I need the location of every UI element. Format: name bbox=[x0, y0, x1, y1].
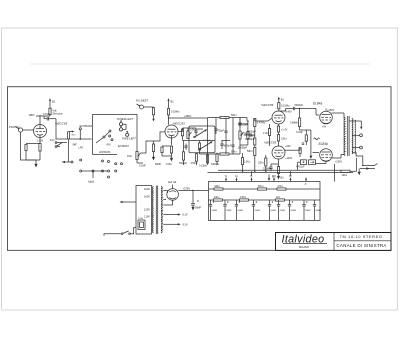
svg-text:50Ko: 50Ko bbox=[231, 114, 237, 117]
svg-text:0.47Mo: 0.47Mo bbox=[257, 122, 266, 125]
svg-text:50Ko: 50Ko bbox=[231, 151, 237, 154]
svg-text:0.22Mo: 0.22Mo bbox=[199, 165, 208, 168]
feedback resistor R20 10Ko bbox=[341, 158, 357, 177]
wire jack ground drop bbox=[21, 132, 37, 160]
tuner-left jacks bbox=[117, 117, 134, 131]
primary winding bbox=[344, 118, 345, 156]
node 185V bbox=[29, 113, 45, 124]
svg-text:0.68Mo: 0.68Mo bbox=[290, 122, 299, 125]
triode V1 1/2ECC83 bbox=[34, 122, 68, 144]
svg-text:LFO: LFO bbox=[79, 146, 84, 149]
resistor R28 bbox=[211, 153, 220, 166]
svg-text:B1: B1 bbox=[281, 98, 285, 102]
cap C11 10000pF bbox=[244, 132, 257, 137]
node ENTRATA bbox=[79, 124, 92, 140]
cap C12 10000pF bbox=[245, 135, 256, 148]
selector box S1 bbox=[93, 115, 138, 155]
resistor R27 bbox=[198, 141, 207, 155]
svg-text:10Ko: 10Ko bbox=[214, 197, 220, 199]
vertical rail to filter bbox=[199, 118, 209, 168]
svg-text:0.1MF: 0.1MF bbox=[139, 165, 146, 168]
p.u. dest jack J2 bbox=[136, 99, 154, 109]
svg-text:3000pF: 3000pF bbox=[224, 146, 232, 148]
svg-text:ENTRATA: ENTRATA bbox=[80, 124, 93, 128]
terminal X bbox=[304, 177, 308, 186]
connecting rail to driver bbox=[247, 118, 249, 122]
series cap on input wire bbox=[68, 131, 76, 140]
cap C9 750pF bbox=[214, 118, 224, 135]
coupling cap C1 0.1MF bbox=[43, 113, 56, 121]
filter box outline bbox=[209, 182, 321, 221]
net label 5KF LFO bbox=[73, 144, 84, 150]
cathode resistor R19 470o bbox=[298, 160, 327, 171]
coupling to EL84b: wires and caps bbox=[285, 130, 311, 150]
svg-text:50MF: 50MF bbox=[212, 210, 218, 212]
plate resistor R1 bbox=[44, 108, 63, 116]
B+ output wire +275V bbox=[178, 187, 208, 191]
svg-text:470Ko: 470Ko bbox=[191, 162, 199, 165]
wire volume wiper to V2 grid bbox=[141, 132, 166, 153]
electrolytic C14 220MF bbox=[263, 164, 279, 171]
svg-text:1.2Ko: 1.2Ko bbox=[244, 161, 251, 164]
svg-text:25MF: 25MF bbox=[280, 210, 286, 212]
svg-text:12Ko: 12Ko bbox=[281, 138, 287, 141]
svg-text:0.18Mo: 0.18Mo bbox=[171, 111, 180, 114]
wire R13 to rail bbox=[254, 162, 256, 171]
svg-text:ENTRATA: ENTRATA bbox=[100, 151, 111, 154]
core bbox=[348, 116, 349, 156]
svg-text:185V: 185V bbox=[29, 113, 35, 117]
filter cap bank bbox=[209, 200, 322, 221]
svg-text:56Ko: 56Ko bbox=[247, 150, 253, 153]
svg-text:+9V: +9V bbox=[322, 126, 327, 129]
svg-text:B1: B1 bbox=[281, 176, 285, 180]
svg-text:2.2Ko: 2.2Ko bbox=[263, 132, 270, 135]
tone switch box bbox=[189, 126, 215, 153]
treble pot P3 0.5Mo bbox=[239, 127, 249, 154]
cap C8 250pF bbox=[238, 118, 248, 129]
cap C10 3000pF bbox=[220, 140, 231, 149]
riser to terminal 34 bbox=[290, 171, 292, 176]
svg-text:25MF: 25MF bbox=[255, 210, 261, 212]
svg-text:+54V: +54V bbox=[285, 145, 291, 148]
triode V4 1/2ECC83 (phase splitter) bbox=[264, 140, 293, 160]
B+ centre tap arrow bbox=[349, 121, 362, 130]
svg-text:25MF: 25MF bbox=[226, 210, 232, 212]
cathode bypass capacitor C2 bbox=[25, 144, 40, 161]
svg-text:X: X bbox=[304, 182, 307, 186]
riser to terminal 7s b bbox=[251, 171, 253, 176]
svg-text:A(p)1: A(p)1 bbox=[87, 180, 95, 184]
cathodyne resistor R32 bbox=[277, 132, 287, 146]
grid return rail bbox=[183, 140, 216, 142]
primary lead top bbox=[344, 117, 345, 119]
cap C16 bbox=[222, 118, 230, 155]
coupling cap C5 bbox=[181, 128, 183, 141]
svg-text:+140V: +140V bbox=[285, 111, 293, 114]
resistor R14 1.2Ko bbox=[241, 153, 250, 168]
cathode resistor R6 bbox=[170, 146, 173, 162]
speaker tap terminal 1 bbox=[352, 134, 362, 137]
load resistor R3 bbox=[152, 107, 154, 122]
B+ arrow B1 (driver) bbox=[278, 97, 285, 103]
svg-text:FUS: FUS bbox=[139, 218, 144, 220]
svg-text:P.U.DEST: P.U.DEST bbox=[136, 99, 148, 103]
svg-text:1Ko: 1Ko bbox=[276, 197, 281, 199]
T1 secondary winding bbox=[161, 187, 162, 233]
svg-text:5KF: 5KF bbox=[73, 144, 78, 147]
svg-text:+275V: +275V bbox=[183, 187, 191, 191]
svg-text:+250V: +250V bbox=[335, 160, 342, 163]
svg-text:50MF: 50MF bbox=[195, 207, 202, 210]
resistor R21 52Ko bbox=[214, 186, 223, 190]
junction dots on rail bbox=[242, 171, 267, 172]
svg-text:B1: B1 bbox=[171, 100, 175, 104]
grid resistor R4 bbox=[152, 141, 155, 161]
ground (input stage) bbox=[26, 160, 40, 168]
wafer contact grid below selector bbox=[71, 159, 123, 184]
resistor R13 56Ko bbox=[247, 148, 256, 163]
mains voltage arrow bbox=[120, 201, 137, 203]
svg-text:ENTRATA: ENTRATA bbox=[118, 145, 129, 148]
rectifier U3 GZ34 bbox=[163, 180, 178, 205]
svg-text:MILANO: MILANO bbox=[299, 245, 309, 249]
mute switch S3 bbox=[50, 140, 67, 147]
svg-text:470ΩLF: 470ΩLF bbox=[296, 166, 305, 169]
svg-text:TUNER-LEFT: TUNER-LEFT bbox=[117, 117, 134, 121]
logo Italvideo bbox=[282, 233, 327, 249]
svg-text:½ECC83: ½ECC83 bbox=[264, 140, 277, 144]
svg-text:51Ko: 51Ko bbox=[258, 186, 264, 188]
secondary bottom lead bbox=[352, 153, 363, 166]
svg-text:3300pF: 3300pF bbox=[179, 162, 188, 165]
resistor R24 10Ko bbox=[213, 197, 222, 201]
svg-text:Silencium: Silencium bbox=[53, 113, 63, 116]
svg-text:50MF: 50MF bbox=[316, 210, 322, 212]
T1 primary taps bbox=[152, 192, 154, 224]
tape-left jack bbox=[122, 131, 136, 140]
svg-text:TM 10-10 STEREO: TM 10-10 STEREO bbox=[340, 234, 383, 239]
hum filter squiggle bbox=[314, 138, 320, 140]
svg-text:+280V: +280V bbox=[184, 115, 192, 118]
primary lead bottom bbox=[344, 154, 345, 157]
bus wire row2 bbox=[209, 199, 321, 201]
svg-text:RIV.: RIV. bbox=[107, 144, 112, 147]
svg-text:50MF: 50MF bbox=[155, 163, 162, 166]
heater winding line 6.3V (a) bbox=[163, 213, 188, 216]
svg-text:125V: 125V bbox=[144, 208, 150, 212]
svg-text:110V: 110V bbox=[144, 215, 150, 219]
svg-text:Rim: Rim bbox=[72, 134, 76, 136]
triode V2 1/2ECC83 bbox=[165, 121, 185, 145]
B+ arrow B1 (input stage) bbox=[49, 98, 56, 108]
arrow to wafer bbox=[62, 161, 71, 163]
svg-text:1.5Ko: 1.5Ko bbox=[166, 163, 173, 166]
heater rail lower bbox=[208, 171, 354, 173]
svg-text:20000pF: 20000pF bbox=[238, 147, 248, 149]
wire plate node to selector bbox=[56, 119, 92, 139]
feedback rail wire bbox=[218, 169, 341, 171]
pentode U2 EL84b bbox=[319, 142, 345, 163]
heater winding line 6.3V (b) bbox=[163, 223, 188, 226]
svg-text:25MF: 25MF bbox=[305, 210, 311, 212]
svg-text:EL84a: EL84a bbox=[313, 102, 322, 106]
svg-text:47Ko: 47Ko bbox=[278, 186, 284, 188]
plate resistor R5 0.18Mo bbox=[167, 109, 180, 125]
svg-text:220V: 220V bbox=[144, 187, 150, 191]
resistor R8 bbox=[191, 153, 199, 165]
first filter cap C15 50MF bbox=[191, 190, 202, 211]
cap C18 25MF bbox=[238, 118, 249, 127]
resistor R17 22Ko bbox=[258, 155, 267, 171]
plate resistor R11 0.15Mo bbox=[278, 103, 290, 112]
wire to EL84b grid bbox=[313, 152, 320, 154]
bass pot P2 0.5Mo bbox=[183, 128, 198, 139]
wire jack to V1 grid bbox=[23, 129, 34, 131]
mains switch S2 bbox=[104, 228, 136, 236]
speaker tap terminal 2 bbox=[352, 146, 362, 149]
bus wire row1 bbox=[209, 188, 321, 190]
resistor R7 100Ko bbox=[179, 141, 188, 166]
svg-text:3.3Ko: 3.3Ko bbox=[240, 197, 247, 199]
screen feed drop wire bbox=[310, 130, 313, 159]
svg-text:EL84b: EL84b bbox=[319, 142, 328, 146]
svg-text:5000pF: 5000pF bbox=[295, 104, 304, 107]
phono input jack J1 bbox=[9, 125, 23, 132]
svg-text:1Mo: 1Mo bbox=[127, 155, 132, 158]
svg-text:5mV: 5mV bbox=[50, 140, 55, 142]
svg-text:50MF: 50MF bbox=[291, 210, 297, 212]
primary winding inner hatch bbox=[344, 119, 346, 153]
svg-text:10000pF: 10000pF bbox=[245, 138, 255, 141]
svg-text:6.3V: 6.3V bbox=[183, 214, 188, 217]
svg-text:22Ko: 22Ko bbox=[258, 162, 264, 165]
T1 core bbox=[156, 186, 157, 235]
schematic border frame bbox=[8, 87, 392, 251]
svg-text:52Ko: 52Ko bbox=[215, 186, 221, 188]
cap C17 bbox=[231, 118, 234, 155]
resistor R29 1Mo bbox=[238, 121, 255, 149]
svg-text:½ECC83: ½ECC83 bbox=[173, 121, 186, 125]
switch S1 contacts bbox=[96, 130, 129, 154]
svg-text:+1.4V: +1.4V bbox=[281, 129, 288, 132]
grid leak resistor R15 0.68Mo bbox=[290, 108, 301, 130]
svg-text:50MF: 50MF bbox=[271, 210, 277, 212]
T1 secondary hatch bbox=[161, 188, 163, 231]
svg-text:0.15Mo: 0.15Mo bbox=[281, 105, 290, 108]
svg-text:TAPE LEFT: TAPE LEFT bbox=[122, 137, 136, 141]
terminal 14 bbox=[235, 176, 238, 182]
svg-text:CANALE DI SINISTRA: CANALE DI SINISTRA bbox=[336, 243, 386, 248]
volume pot P1 1Mo bbox=[127, 151, 146, 168]
output jack bbox=[360, 164, 378, 170]
terminal 7s bbox=[225, 176, 228, 182]
plate to output coupling: cap C13 5000pF bbox=[279, 104, 320, 115]
svg-text:½ECC83: ½ECC83 bbox=[261, 103, 274, 107]
cap C6 10000pF bbox=[194, 128, 203, 136]
wire V2 plate to tone rail bbox=[178, 131, 183, 133]
svg-text:3300pF: 3300pF bbox=[211, 163, 220, 166]
svg-text:0.1MF: 0.1MF bbox=[43, 113, 50, 116]
node +280V plate rail bbox=[168, 115, 208, 119]
terminal 34 bbox=[289, 176, 292, 182]
wire entrata node drop bbox=[68, 139, 70, 162]
svg-text:50MF: 50MF bbox=[238, 210, 244, 212]
cathode resistor R18 12Ko bbox=[277, 159, 279, 176]
B.T. feed arrow bbox=[268, 175, 277, 182]
bottom ladder resistor R10 50Ko bbox=[208, 151, 241, 156]
resistor R22 51Ko bbox=[258, 186, 267, 190]
svg-text:½ECC83: ½ECC83 bbox=[55, 122, 68, 126]
wire R14 to rail bbox=[242, 168, 244, 171]
svg-text:+250V: +250V bbox=[327, 109, 335, 112]
resistor R26 1Ko bbox=[276, 197, 285, 201]
svg-text:0.1MF: 0.1MF bbox=[296, 131, 303, 134]
ground (splitter) bbox=[277, 176, 284, 180]
triode V3 1/2ECC83 bbox=[261, 103, 292, 124]
tail resistor R16 bbox=[263, 124, 271, 146]
terminal 7s c bbox=[273, 176, 276, 182]
svg-text:10000: 10000 bbox=[197, 129, 204, 131]
treble ladder top resistor R9 50Ko bbox=[208, 114, 248, 119]
grid resistor R30 EL84b bbox=[299, 143, 304, 157]
T1 primary winding bbox=[153, 187, 154, 233]
B+ arrow B1 (second stage) bbox=[167, 98, 174, 108]
secondary winding section 2 bbox=[355, 120, 356, 154]
svg-text:10000pF: 10000pF bbox=[247, 132, 257, 134]
title block box bbox=[276, 233, 392, 251]
secondary winding bbox=[352, 119, 353, 154]
ground (output) bbox=[358, 169, 361, 176]
svg-text:6.3V: 6.3V bbox=[183, 224, 188, 227]
svg-text:+143V: +143V bbox=[285, 157, 293, 160]
svg-text:160V: 160V bbox=[144, 195, 150, 199]
cap C7 bbox=[184, 144, 187, 151]
cathode bypass cap C4 bbox=[155, 146, 172, 166]
svg-text:B1: B1 bbox=[52, 100, 56, 104]
pentode U1 EL84a bbox=[313, 102, 344, 124]
grid resistor R12 0.47Mo bbox=[254, 118, 273, 135]
terminal 7s b bbox=[250, 176, 253, 182]
faint scan streak bbox=[30, 63, 370, 65]
svg-text:750pF: 750pF bbox=[218, 131, 225, 133]
svg-text:GZ 34: GZ 34 bbox=[168, 180, 177, 184]
svg-text:1.72V: 1.72V bbox=[37, 139, 44, 143]
capacitor polarity marks bbox=[197, 200, 307, 203]
resistor R23 47Ko bbox=[277, 186, 286, 190]
mains fuse F1 bbox=[138, 218, 145, 229]
screen return drop bbox=[334, 164, 336, 182]
cathode resistor R2 bbox=[37, 139, 44, 161]
svg-text:10Ko: 10Ko bbox=[342, 174, 348, 177]
cathodyne resistor R31 bbox=[277, 124, 287, 132]
power transformer T1 box bbox=[136, 186, 152, 235]
resistor R25 3.3Ko bbox=[240, 197, 249, 201]
